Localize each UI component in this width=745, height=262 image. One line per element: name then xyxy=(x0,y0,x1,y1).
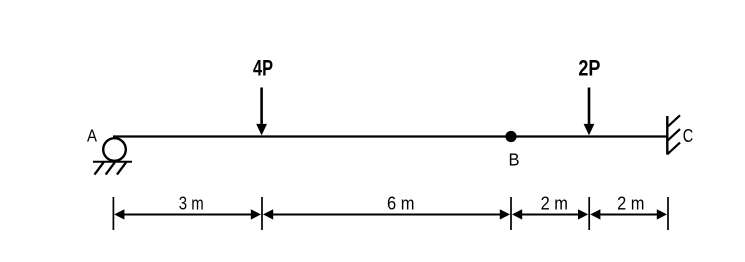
ground hatching at A xyxy=(95,162,127,174)
svg-text:2 m: 2 m xyxy=(617,194,644,214)
hinge B xyxy=(505,131,516,142)
svg-text:B: B xyxy=(509,149,520,169)
ground line at A xyxy=(93,161,132,163)
roller support A xyxy=(103,138,126,161)
dimension tick at 4P xyxy=(261,197,263,230)
beam xyxy=(113,135,667,137)
dimension tick at B xyxy=(510,197,512,230)
fixed support C hatching xyxy=(667,115,680,154)
dimension arrow 3 m span xyxy=(114,209,261,219)
dimension arrow second 2 m span xyxy=(590,209,667,219)
dimension arrow first 2 m span xyxy=(512,209,588,219)
svg-text:2 m: 2 m xyxy=(541,194,568,214)
svg-text:A: A xyxy=(87,126,97,146)
fixed support C wall xyxy=(666,116,668,155)
svg-text:2P: 2P xyxy=(578,55,600,80)
dimension tick at 2P xyxy=(588,197,590,230)
dimension arrow 6 m span xyxy=(263,209,510,219)
svg-text:C: C xyxy=(683,125,694,146)
svg-text:3 m: 3 m xyxy=(179,194,204,214)
svg-text:4P: 4P xyxy=(253,55,273,80)
dimension tick at C xyxy=(667,197,669,230)
load arrow 4P xyxy=(256,88,267,136)
svg-text:6 m: 6 m xyxy=(387,194,415,214)
load arrow 2P xyxy=(584,88,595,136)
dimension tick at A xyxy=(112,197,114,230)
